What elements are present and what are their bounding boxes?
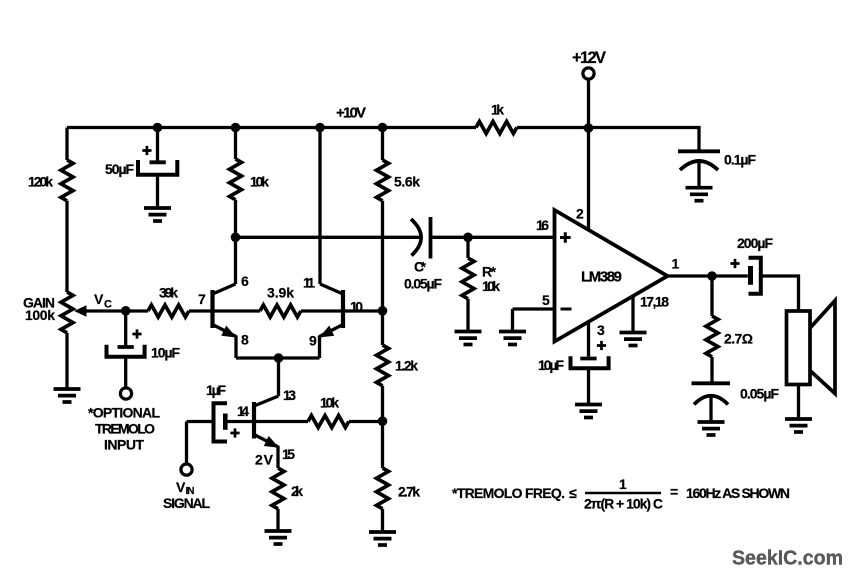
transistor Q 6-7-8 emitter (213, 325, 237, 337)
wire op-amp pin 5 (513, 307, 555, 310)
svg-text:1.2k: 1.2k (395, 358, 418, 374)
resistor 10k (230, 159, 242, 200)
svg-text:100k: 100k (25, 307, 55, 323)
svg-text:1µF: 1µF (206, 382, 226, 398)
capacitor 50uF cup plate (138, 160, 177, 175)
wire 10k down to collector elbow (234, 200, 237, 284)
capacitor 10uF bypass plus plate bar (580, 357, 596, 361)
capacitor 10uF plus plate bar (118, 345, 134, 349)
capacitor 200uF plus plate bar (748, 266, 753, 285)
svg-text:50µF: 50µF (105, 161, 134, 177)
svg-text:11: 11 (303, 275, 315, 291)
wire Q14 emitter to 2k (276, 446, 279, 468)
svg-text:TREMOLO: TREMOLO (95, 421, 155, 437)
wire 10uF bypass to ground (587, 368, 590, 404)
svg-text:2V: 2V (255, 452, 274, 468)
svg-text:0.05µF: 0.05µF (404, 276, 442, 292)
svg-text:120k: 120k (28, 174, 53, 190)
wire 39k to base Q7 (189, 309, 213, 312)
wire 50uF branch (156, 128, 159, 162)
ground below 2k (265, 531, 292, 544)
plus sign 10uF bypass (597, 341, 606, 350)
resistor 3.9k (260, 305, 301, 317)
svg-text:16: 16 (536, 217, 549, 233)
svg-text:10µF: 10µF (538, 357, 564, 373)
svg-text:15: 15 (282, 446, 295, 462)
capacitor 0.1uF curved plate (680, 161, 718, 170)
ground below pot (54, 389, 81, 402)
wire 2.7ohm to 0.05uF (710, 357, 713, 382)
wire 5.6k to base node (381, 201, 384, 345)
capacitor 1uF plus plate bar (223, 414, 228, 430)
wire 0.1uF to ground (697, 162, 700, 188)
svg-text:9: 9 (309, 333, 317, 349)
speaker driver rectangle (787, 311, 811, 385)
transistor Q 14-15 collector (254, 396, 279, 406)
node emitter junction 13 (274, 353, 284, 363)
wire 2k to ground (276, 509, 279, 531)
wire Q 11-10-9 emitter drop (318, 336, 321, 359)
svg-text:8: 8 (241, 332, 249, 348)
transistor Q 11-10-9 collector (320, 284, 343, 294)
svg-text:7: 7 (198, 291, 206, 307)
node base-5.6k junction (378, 306, 388, 316)
wire 10k to 1.2k node (349, 420, 383, 423)
ground below 50uF (144, 208, 171, 221)
capacitor C* curved plate (411, 219, 421, 256)
wire R* node to op-amp plus input (468, 236, 555, 239)
svg-text:0.05µF: 0.05µF (740, 386, 779, 402)
svg-text:*OPTIONAL: *OPTIONAL (88, 405, 160, 421)
wire left vertical top (65, 128, 68, 161)
svg-text:SeekIC.com: SeekIC.com (732, 548, 843, 570)
wire 10k branch top (234, 128, 237, 160)
node R* junction (463, 233, 473, 243)
capacitor C* straight plate (429, 217, 433, 259)
svg-text:=: = (670, 484, 678, 500)
svg-text:2.7Ω: 2.7Ω (724, 331, 753, 347)
ground below 10uF bypass (575, 405, 602, 418)
wire R* to ground (466, 299, 469, 332)
node rail-10k junction (231, 123, 241, 133)
wire 5.6k branch top (381, 128, 384, 161)
wire Q 6-7-8 emitter drop (234, 336, 237, 359)
wire collector line Q11 (318, 128, 321, 285)
wire 0.05uF to ground (709, 396, 712, 422)
transistor Q 11-10-9 emitter (320, 325, 344, 337)
node rail-5.6k junction (378, 123, 388, 133)
svg-text:10k: 10k (482, 278, 500, 294)
ground pins 17,18 (620, 333, 647, 346)
svg-text:2k: 2k (291, 483, 303, 499)
svg-text:*TREMOLO FREQ.: *TREMOLO FREQ. (452, 485, 565, 501)
ground below 0.05uF (698, 422, 725, 435)
wire R* top (466, 237, 469, 258)
speaker horn (811, 301, 836, 394)
svg-text:10k: 10k (250, 174, 269, 190)
svg-text:5.6k: 5.6k (394, 174, 420, 190)
transistor Q 14-15 base bar (252, 402, 256, 439)
svg-text:V: V (94, 291, 104, 307)
svg-text:200µF: 200µF (737, 235, 773, 251)
ground below 0.1uF (686, 188, 713, 201)
svg-text:3.9k: 3.9k (267, 285, 294, 301)
ground below 2.7k (369, 532, 396, 545)
resistor 2k (272, 468, 284, 509)
svg-text:10µF: 10µF (151, 345, 180, 361)
svg-text:1: 1 (619, 476, 627, 492)
svg-text:1: 1 (672, 256, 680, 272)
svg-text:3: 3 (597, 322, 605, 338)
svg-text:39k: 39k (159, 285, 178, 301)
resistor 1.2k (377, 345, 389, 386)
transistor Q 6-7-8 collector (213, 284, 236, 294)
capacitor 1uF cup plate (214, 403, 228, 441)
wire 2.7ohm branch (710, 276, 713, 316)
resistor R* 10k (462, 258, 474, 299)
svg-text:INPUT: INPUT (104, 437, 144, 453)
wire VIN to 1uF (187, 420, 212, 423)
node VC junction (121, 306, 131, 316)
node output junction (707, 271, 717, 281)
wire C* to R* node (431, 236, 469, 239)
wire C* feed line (236, 236, 421, 239)
resistor 2.7k (377, 468, 389, 509)
op-amp plus sign input (560, 232, 571, 243)
svg-text:C*: C* (414, 259, 427, 275)
svg-text:17,18: 17,18 (640, 294, 669, 310)
node rail-collector junction (315, 123, 325, 133)
wire +12V to op-amp pin 2 (587, 79, 590, 230)
wire 120k to pot (65, 201, 68, 292)
potentiometer wiper arrow (86, 309, 126, 312)
capacitor 0.05uF curved plate (694, 396, 728, 405)
svg-text:2: 2 (576, 206, 584, 222)
wire rail right section to 0.1uF corner (517, 128, 699, 151)
svg-text:0.1µF: 0.1µF (724, 152, 756, 168)
potentiometer GAIN 100k (61, 292, 73, 333)
svg-text:2.7k: 2.7k (398, 484, 420, 500)
wire 10uF to input terminal (124, 357, 127, 388)
ground below speaker (785, 419, 812, 432)
svg-text:6: 6 (241, 273, 249, 289)
resistor 1k (476, 122, 517, 134)
op-amp U1 LM389 triangle (555, 210, 668, 342)
transistor Q 14-15 emitter (254, 435, 278, 447)
resistor 2.7ohm (706, 316, 718, 357)
svg-text:SIGNAL: SIGNAL (163, 495, 210, 511)
capacitor 0.1uF straight plate (678, 149, 720, 153)
node 10k-C* junction (231, 233, 241, 243)
wire base Q14 to 10k (254, 420, 308, 423)
transistor Q 6-7-8 base bar (210, 290, 214, 328)
op-amp minus sign input (561, 308, 572, 311)
svg-text:+12V: +12V (572, 49, 606, 67)
svg-text:+10V: +10V (336, 105, 366, 122)
plus sign 1uF (230, 428, 239, 437)
ground below R* (455, 332, 482, 345)
wire VC to 39k (126, 309, 148, 312)
wire op-amp output pin 1 (668, 274, 748, 277)
wire pot to ground (65, 333, 68, 389)
plus sign 50uF (142, 146, 151, 155)
wire 3.9k to base Q10 (301, 309, 343, 312)
svg-text:160Hz AS SHOWN: 160Hz AS SHOWN (686, 485, 790, 501)
svg-text:LM389: LM389 (581, 269, 622, 286)
wire 50uF to ground (156, 175, 159, 208)
capacitor 0.05uF straight plate (692, 381, 731, 385)
terminal optional tremolo input (120, 388, 131, 399)
capacitor 10uF cup plate (107, 345, 145, 357)
capacitor 200uF cup plate (749, 258, 761, 294)
terminal +12V (583, 68, 594, 79)
svg-text:5: 5 (542, 292, 550, 308)
wire base Q10 to 5.6k node (343, 309, 383, 312)
wire 1uF to base Q14 (228, 420, 255, 423)
wire op-amp pins 17,18 (631, 296, 634, 333)
svg-text:14: 14 (237, 403, 249, 419)
svg-text:10k: 10k (320, 395, 339, 411)
wire 200uF to speaker (761, 276, 799, 311)
wire +10V rail left section (67, 126, 476, 129)
plus sign 200uF (730, 259, 739, 268)
ground pin 5 (499, 332, 526, 345)
plus sign 10uF tremolo (132, 329, 141, 338)
svg-text:V: V (176, 479, 186, 495)
transistor Q 11-10-9 base bar (341, 290, 345, 328)
svg-text:13: 13 (283, 387, 296, 403)
capacitor 50uF plus plate bar (150, 160, 166, 164)
svg-text:≤: ≤ (569, 485, 577, 501)
formula fraction bar (585, 492, 661, 495)
svg-text:C: C (104, 299, 112, 311)
wire speaker to ground (797, 385, 800, 420)
resistor 10k emitter-feedback (308, 416, 349, 428)
svg-text:1k: 1k (491, 102, 504, 118)
capacitor 10uF tremolo wire (124, 311, 127, 346)
svg-text:10: 10 (350, 299, 363, 315)
wire node 13 drop (277, 358, 280, 396)
resistor 120k (61, 160, 73, 201)
node rail-50uF junction (153, 123, 163, 133)
wire op-amp pin 3 (587, 322, 590, 357)
svg-text:2π(R + 10k) C: 2π(R + 10k) C (584, 496, 663, 512)
resistor 5.6k (377, 160, 389, 201)
terminal VIN (181, 464, 192, 475)
wire base line between transistors (213, 309, 261, 312)
resistor 39k (148, 305, 189, 317)
wire 1.2k to 2.7k (381, 386, 384, 468)
wire emitter join line (236, 356, 320, 359)
node rail +12V junction (584, 123, 594, 133)
node 10k-1.2k junction (378, 416, 388, 426)
capacitor 10uF bypass cup plate (571, 356, 609, 368)
wire 2.7k to ground (381, 509, 384, 532)
